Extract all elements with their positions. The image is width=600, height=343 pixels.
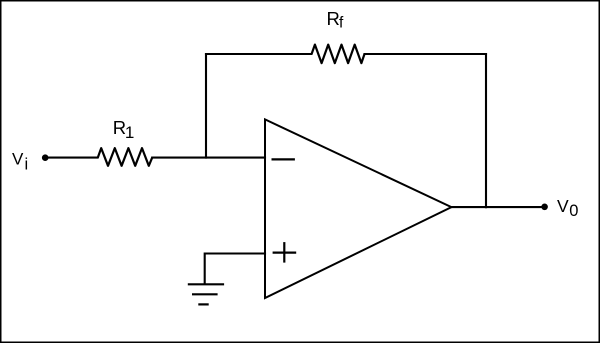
output terminal dot (node V0) bbox=[541, 204, 548, 211]
svg-text:1: 1 bbox=[125, 123, 134, 142]
svg-text:R: R bbox=[327, 8, 340, 29]
svg-text:f: f bbox=[339, 15, 344, 32]
svg-text:i: i bbox=[25, 156, 29, 174]
resistor Rf bbox=[312, 45, 365, 64]
label Vi bbox=[12, 150, 28, 174]
op-amp inverting input minus sign bbox=[273, 158, 294, 160]
label R1 bbox=[113, 117, 135, 142]
op-amp U1 bbox=[265, 119, 451, 298]
label Rf bbox=[327, 8, 345, 32]
label V0 bbox=[557, 196, 578, 220]
wire feedback top right segment bbox=[365, 53, 487, 55]
svg-text:V: V bbox=[557, 196, 569, 216]
svg-text:0: 0 bbox=[569, 202, 578, 220]
wire feedback top left segment bbox=[206, 53, 311, 55]
wire op-amp output bbox=[451, 206, 545, 208]
ground bbox=[189, 284, 223, 304]
op-amp non-inverting input plus sign bbox=[274, 243, 295, 261]
wire Vi dot to R1 bbox=[45, 157, 98, 159]
wire non-inverting input to ground bbox=[205, 254, 265, 285]
resistor R1 bbox=[98, 148, 152, 166]
input terminal dot (node Vi) bbox=[42, 154, 49, 161]
wire feedback right vertical bbox=[485, 54, 487, 207]
wire feedback left vertical (junction at inverting input node) bbox=[205, 54, 207, 158]
wire R1 to op-amp inverting input bbox=[152, 157, 265, 159]
svg-text:V: V bbox=[12, 150, 24, 169]
